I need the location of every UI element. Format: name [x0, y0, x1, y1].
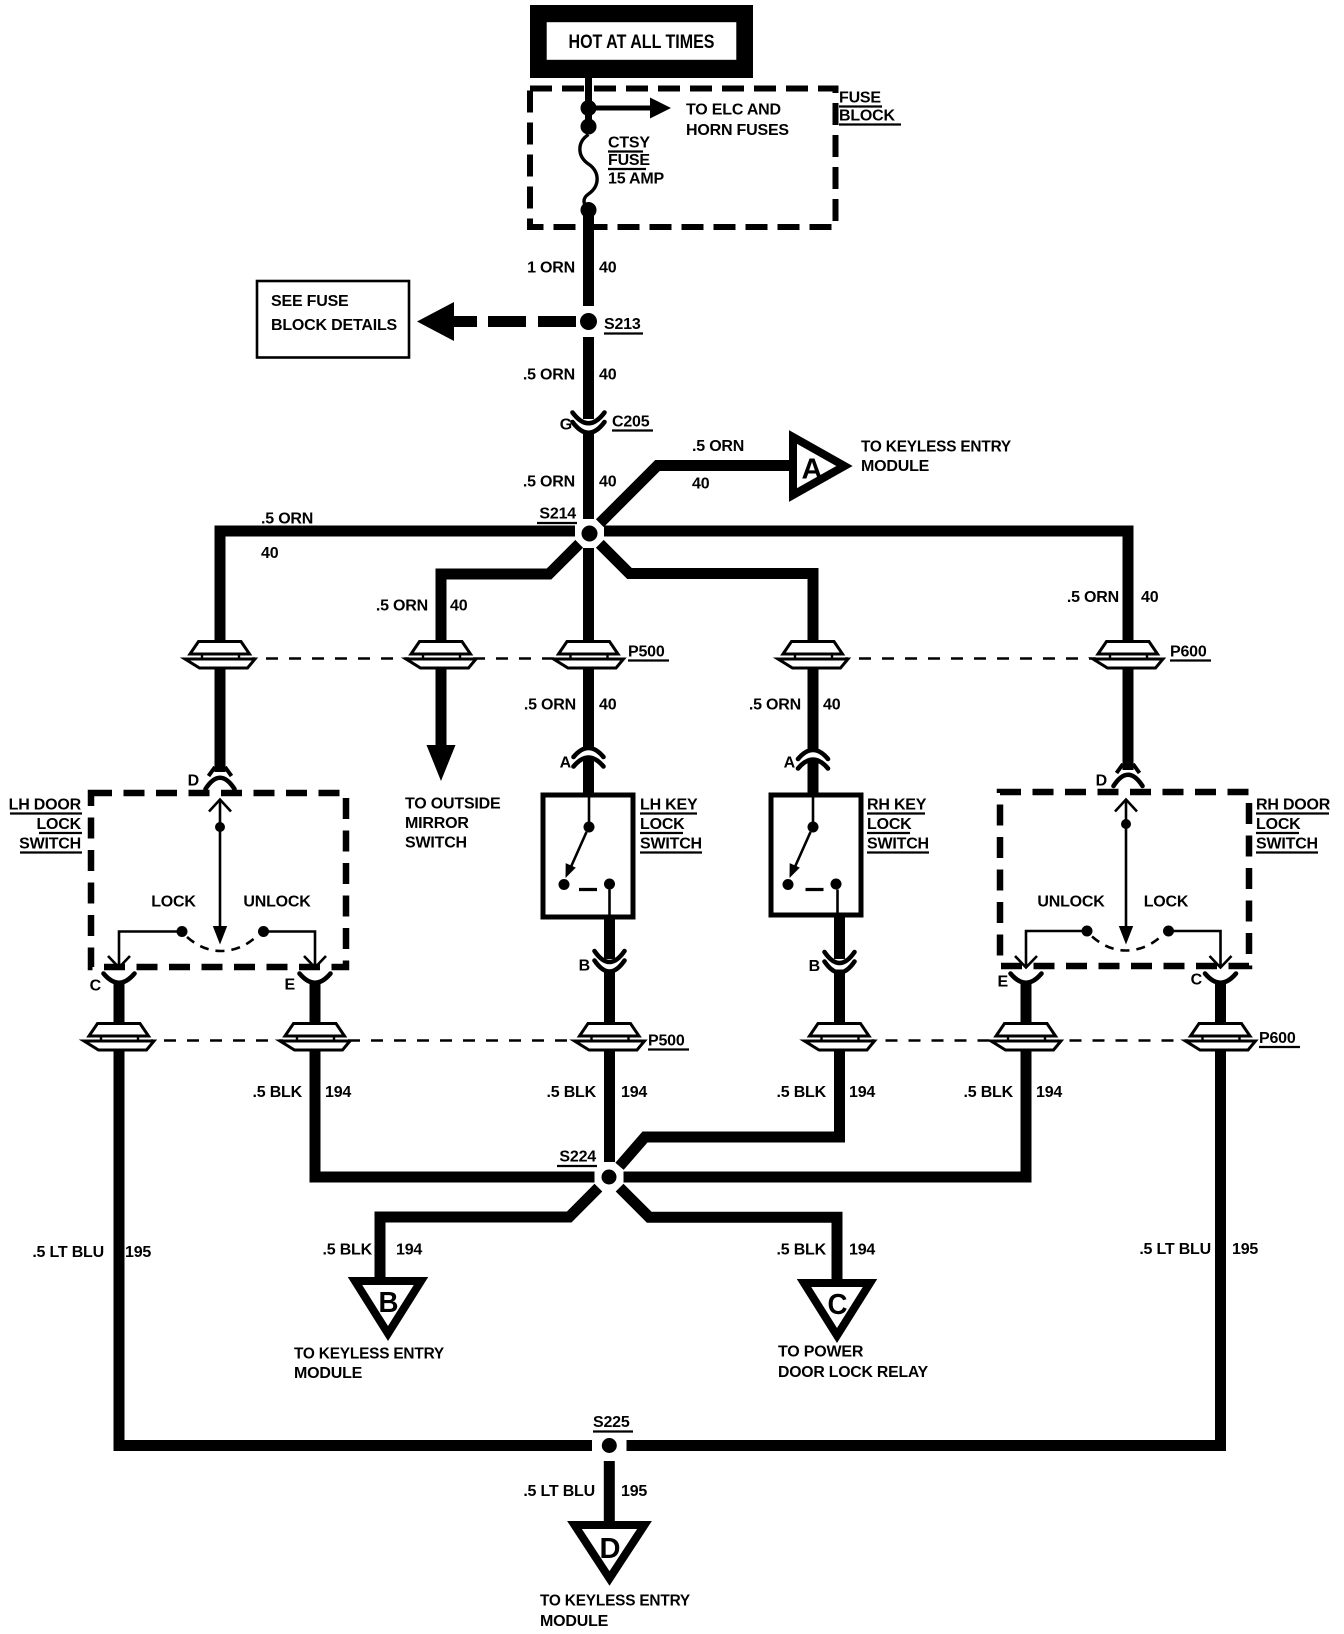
svg-text:S224: S224 — [559, 1149, 596, 1166]
svg-text:LOCK: LOCK — [640, 816, 685, 833]
svg-text:SWITCH: SWITCH — [867, 836, 929, 853]
svg-text:D: D — [600, 1533, 621, 1565]
svg-text:TO KEYLESS ENTRY: TO KEYLESS ENTRY — [861, 439, 1011, 456]
svg-text:.5 LT BLU: .5 LT BLU — [32, 1244, 104, 1261]
svg-text:40: 40 — [599, 367, 617, 384]
svg-text:LOCK: LOCK — [151, 894, 196, 911]
svg-text:CTSY: CTSY — [608, 135, 650, 152]
svg-text:.5 BLK: .5 BLK — [547, 1084, 597, 1101]
svg-text:194: 194 — [621, 1084, 647, 1101]
svg-text:.5 LT BLU: .5 LT BLU — [1139, 1241, 1211, 1258]
svg-text:.5 ORN: .5 ORN — [261, 511, 313, 528]
svg-text:UNLOCK: UNLOCK — [243, 894, 311, 911]
svg-text:S225: S225 — [593, 1414, 630, 1431]
svg-text:LH KEY: LH KEY — [640, 797, 698, 814]
svg-text:B: B — [379, 1287, 399, 1319]
svg-text:HOT AT ALL TIMES: HOT AT ALL TIMES — [569, 32, 715, 53]
svg-text:195: 195 — [621, 1483, 647, 1500]
svg-text:S214: S214 — [539, 506, 576, 523]
svg-text:40: 40 — [599, 474, 617, 491]
svg-text:UNLOCK: UNLOCK — [1037, 894, 1105, 911]
svg-text:MODULE: MODULE — [861, 458, 930, 475]
svg-text:LOCK: LOCK — [1144, 894, 1189, 911]
svg-text:C: C — [828, 1289, 848, 1321]
svg-text:LH DOOR: LH DOOR — [9, 797, 82, 814]
svg-text:195: 195 — [1232, 1241, 1258, 1258]
svg-text:LOCK: LOCK — [867, 816, 912, 833]
svg-text:194: 194 — [849, 1084, 875, 1101]
svg-text:40: 40 — [599, 697, 617, 714]
svg-text:40: 40 — [1141, 589, 1159, 606]
svg-text:RH DOOR: RH DOOR — [1256, 797, 1331, 814]
svg-text:SWITCH: SWITCH — [1256, 836, 1318, 853]
svg-text:FUSE: FUSE — [608, 152, 650, 169]
svg-text:FUSE: FUSE — [839, 90, 881, 107]
svg-text:194: 194 — [1036, 1084, 1062, 1101]
svg-text:C205: C205 — [612, 414, 650, 431]
svg-text:TO OUTSIDE: TO OUTSIDE — [405, 796, 501, 813]
svg-text:.5 ORN: .5 ORN — [692, 438, 744, 455]
svg-text:P500: P500 — [648, 1033, 685, 1050]
svg-text:SWITCH: SWITCH — [19, 836, 81, 853]
svg-text:194: 194 — [325, 1084, 351, 1101]
svg-text:.5 BLK: .5 BLK — [964, 1084, 1014, 1101]
svg-text:MODULE: MODULE — [540, 1613, 609, 1630]
svg-text:HORN FUSES: HORN FUSES — [686, 122, 789, 139]
svg-text:MIRROR: MIRROR — [405, 815, 469, 832]
svg-text:.5 ORN: .5 ORN — [524, 697, 576, 714]
svg-text:.5 ORN: .5 ORN — [523, 474, 575, 491]
svg-text:.5 BLK: .5 BLK — [777, 1242, 827, 1259]
svg-text:P500: P500 — [628, 644, 665, 661]
svg-text:LOCK: LOCK — [36, 816, 81, 833]
svg-text:195: 195 — [125, 1244, 151, 1261]
svg-text:.5 BLK: .5 BLK — [253, 1084, 303, 1101]
svg-text:194: 194 — [396, 1242, 422, 1259]
svg-text:BLOCK: BLOCK — [839, 108, 896, 125]
svg-text:TO KEYLESS ENTRY: TO KEYLESS ENTRY — [540, 1593, 690, 1610]
svg-text:40: 40 — [450, 598, 468, 615]
svg-text:D: D — [188, 773, 199, 790]
svg-text:.5 BLK: .5 BLK — [777, 1084, 827, 1101]
svg-text:194: 194 — [849, 1242, 875, 1259]
svg-text:E: E — [998, 974, 1009, 991]
svg-text:.5 ORN: .5 ORN — [376, 598, 428, 615]
svg-text:G: G — [560, 417, 572, 434]
svg-text:D: D — [1096, 773, 1107, 790]
svg-text:RH KEY: RH KEY — [867, 797, 927, 814]
svg-text:P600: P600 — [1259, 1030, 1296, 1047]
svg-text:1 ORN: 1 ORN — [527, 260, 575, 277]
svg-text:LOCK: LOCK — [1256, 816, 1301, 833]
svg-text:40: 40 — [823, 697, 841, 714]
svg-text:.5 ORN: .5 ORN — [749, 697, 801, 714]
svg-text:DOOR LOCK RELAY: DOOR LOCK RELAY — [778, 1364, 929, 1381]
svg-text:.5 ORN: .5 ORN — [523, 367, 575, 384]
svg-text:40: 40 — [599, 260, 617, 277]
svg-text:A: A — [802, 454, 823, 486]
svg-text:.5 BLK: .5 BLK — [323, 1242, 373, 1259]
svg-text:.5 LT BLU: .5 LT BLU — [523, 1483, 595, 1500]
svg-text:A: A — [560, 755, 572, 772]
svg-text:C: C — [90, 978, 102, 995]
svg-text:40: 40 — [692, 476, 710, 493]
svg-text:SWITCH: SWITCH — [640, 836, 702, 853]
svg-text:BLOCK DETAILS: BLOCK DETAILS — [271, 317, 398, 334]
svg-text:TO ELC AND: TO ELC AND — [686, 102, 781, 119]
svg-text:B: B — [809, 958, 820, 975]
svg-text:S213: S213 — [604, 316, 641, 333]
svg-text:MODULE: MODULE — [294, 1365, 363, 1382]
svg-text:SEE FUSE: SEE FUSE — [271, 293, 349, 310]
svg-text:.5 ORN: .5 ORN — [1067, 589, 1119, 606]
svg-text:P600: P600 — [1170, 644, 1207, 661]
svg-text:A: A — [784, 755, 796, 772]
svg-text:E: E — [285, 977, 296, 994]
svg-text:SWITCH: SWITCH — [405, 835, 467, 852]
svg-text:15 AMP: 15 AMP — [608, 171, 665, 188]
svg-text:C: C — [1191, 972, 1203, 989]
svg-text:TO POWER: TO POWER — [778, 1344, 864, 1361]
svg-text:B: B — [579, 958, 590, 975]
svg-text:TO KEYLESS ENTRY: TO KEYLESS ENTRY — [294, 1346, 444, 1363]
svg-text:40: 40 — [261, 545, 279, 562]
